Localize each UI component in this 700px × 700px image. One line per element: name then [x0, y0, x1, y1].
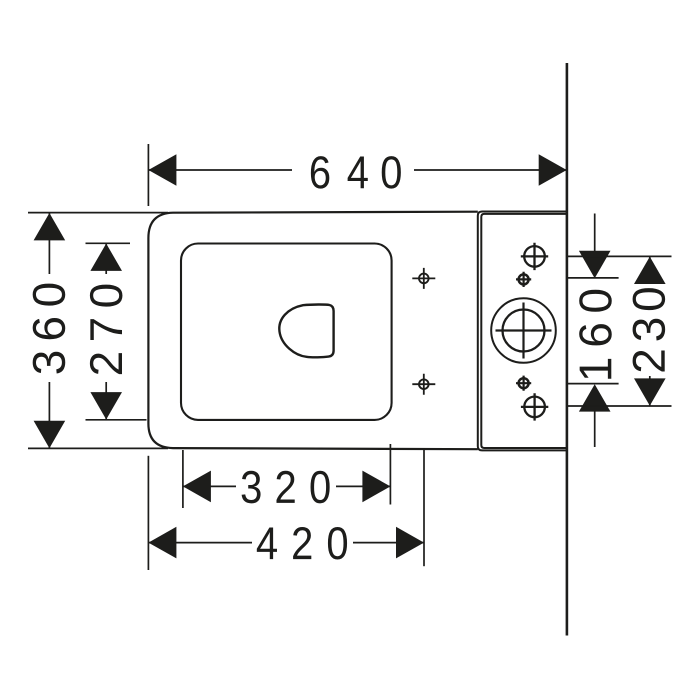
seat mounting hole (bottom) [412, 374, 435, 395]
dim 320: left arrow [183, 471, 211, 503]
dim 160: top arrow (points down) [579, 251, 611, 278]
dim 230: extension line bottom [568, 405, 672, 407]
dim 160: extension line top [568, 277, 619, 279]
dim 230: dimension line [649, 257, 651, 406]
dim 420: extension line left [147, 456, 149, 570]
dim 640: right arrow [539, 154, 567, 186]
dim 270: top arrow [90, 244, 122, 271]
dim 270: dimension line [105, 244, 107, 420]
label 420 [257, 527, 347, 560]
dim 160: bottom arrow (points up) [579, 384, 611, 411]
label 230 (rotated) [633, 288, 666, 371]
cistern tank outer rect [478, 212, 567, 451]
label 320 [242, 471, 330, 504]
dim 320: extension line left [182, 450, 184, 508]
wall line [566, 63, 569, 636]
label 160 (rotated) [579, 290, 612, 379]
label 270 (rotated) [90, 285, 123, 374]
dim 420: left arrow [148, 527, 176, 559]
dim 160: lower leader line [594, 410, 596, 447]
label 360 (rotated) [33, 284, 66, 374]
dim 640: extension line left [147, 144, 149, 206]
dim 270: extension line top [86, 242, 131, 244]
tank small marker top [516, 272, 531, 287]
dim 230: bottom arrow (points down) [634, 378, 666, 405]
tank small marker bottom [516, 376, 531, 391]
dim 160: upper leader line [594, 214, 596, 253]
water hole blob [279, 304, 333, 357]
seat mounting hole (top) [412, 268, 435, 289]
dim 320: dimension line [183, 485, 391, 487]
toilet body outline (pan, top view) [148, 212, 477, 450]
cistern tank inner rect [481, 214, 566, 448]
dim 420: extension line right [423, 449, 425, 566]
dim 360: bottom arrow [34, 421, 66, 448]
dim 360: top arrow [34, 213, 66, 240]
dim 360: dimension line [48, 213, 50, 448]
dim 230: top arrow (points up) [634, 257, 666, 284]
inner rim (seat opening) [181, 244, 392, 420]
dim 420: dimension line [148, 542, 424, 544]
label 640 [311, 156, 401, 189]
dim 160: extension line bottom [568, 383, 619, 385]
dim 320: extension line right [389, 444, 391, 505]
dim 320: right arrow [362, 471, 390, 503]
dim 420: right arrow [396, 527, 424, 559]
flush valve big circle [491, 298, 556, 363]
tank hole circle top [521, 243, 548, 270]
tank hole circle bottom [521, 393, 548, 420]
dim 360: extension line top [28, 212, 168, 214]
dim 270: bottom arrow [90, 392, 122, 419]
text backgrounds [31, 150, 667, 563]
dim 360: extension line bottom [28, 447, 168, 449]
dim 270: extension line bottom [86, 419, 147, 421]
dim 640: dimension line [148, 169, 566, 171]
dim 640: left arrow [148, 154, 176, 186]
dim 230: extension line top [568, 255, 672, 257]
